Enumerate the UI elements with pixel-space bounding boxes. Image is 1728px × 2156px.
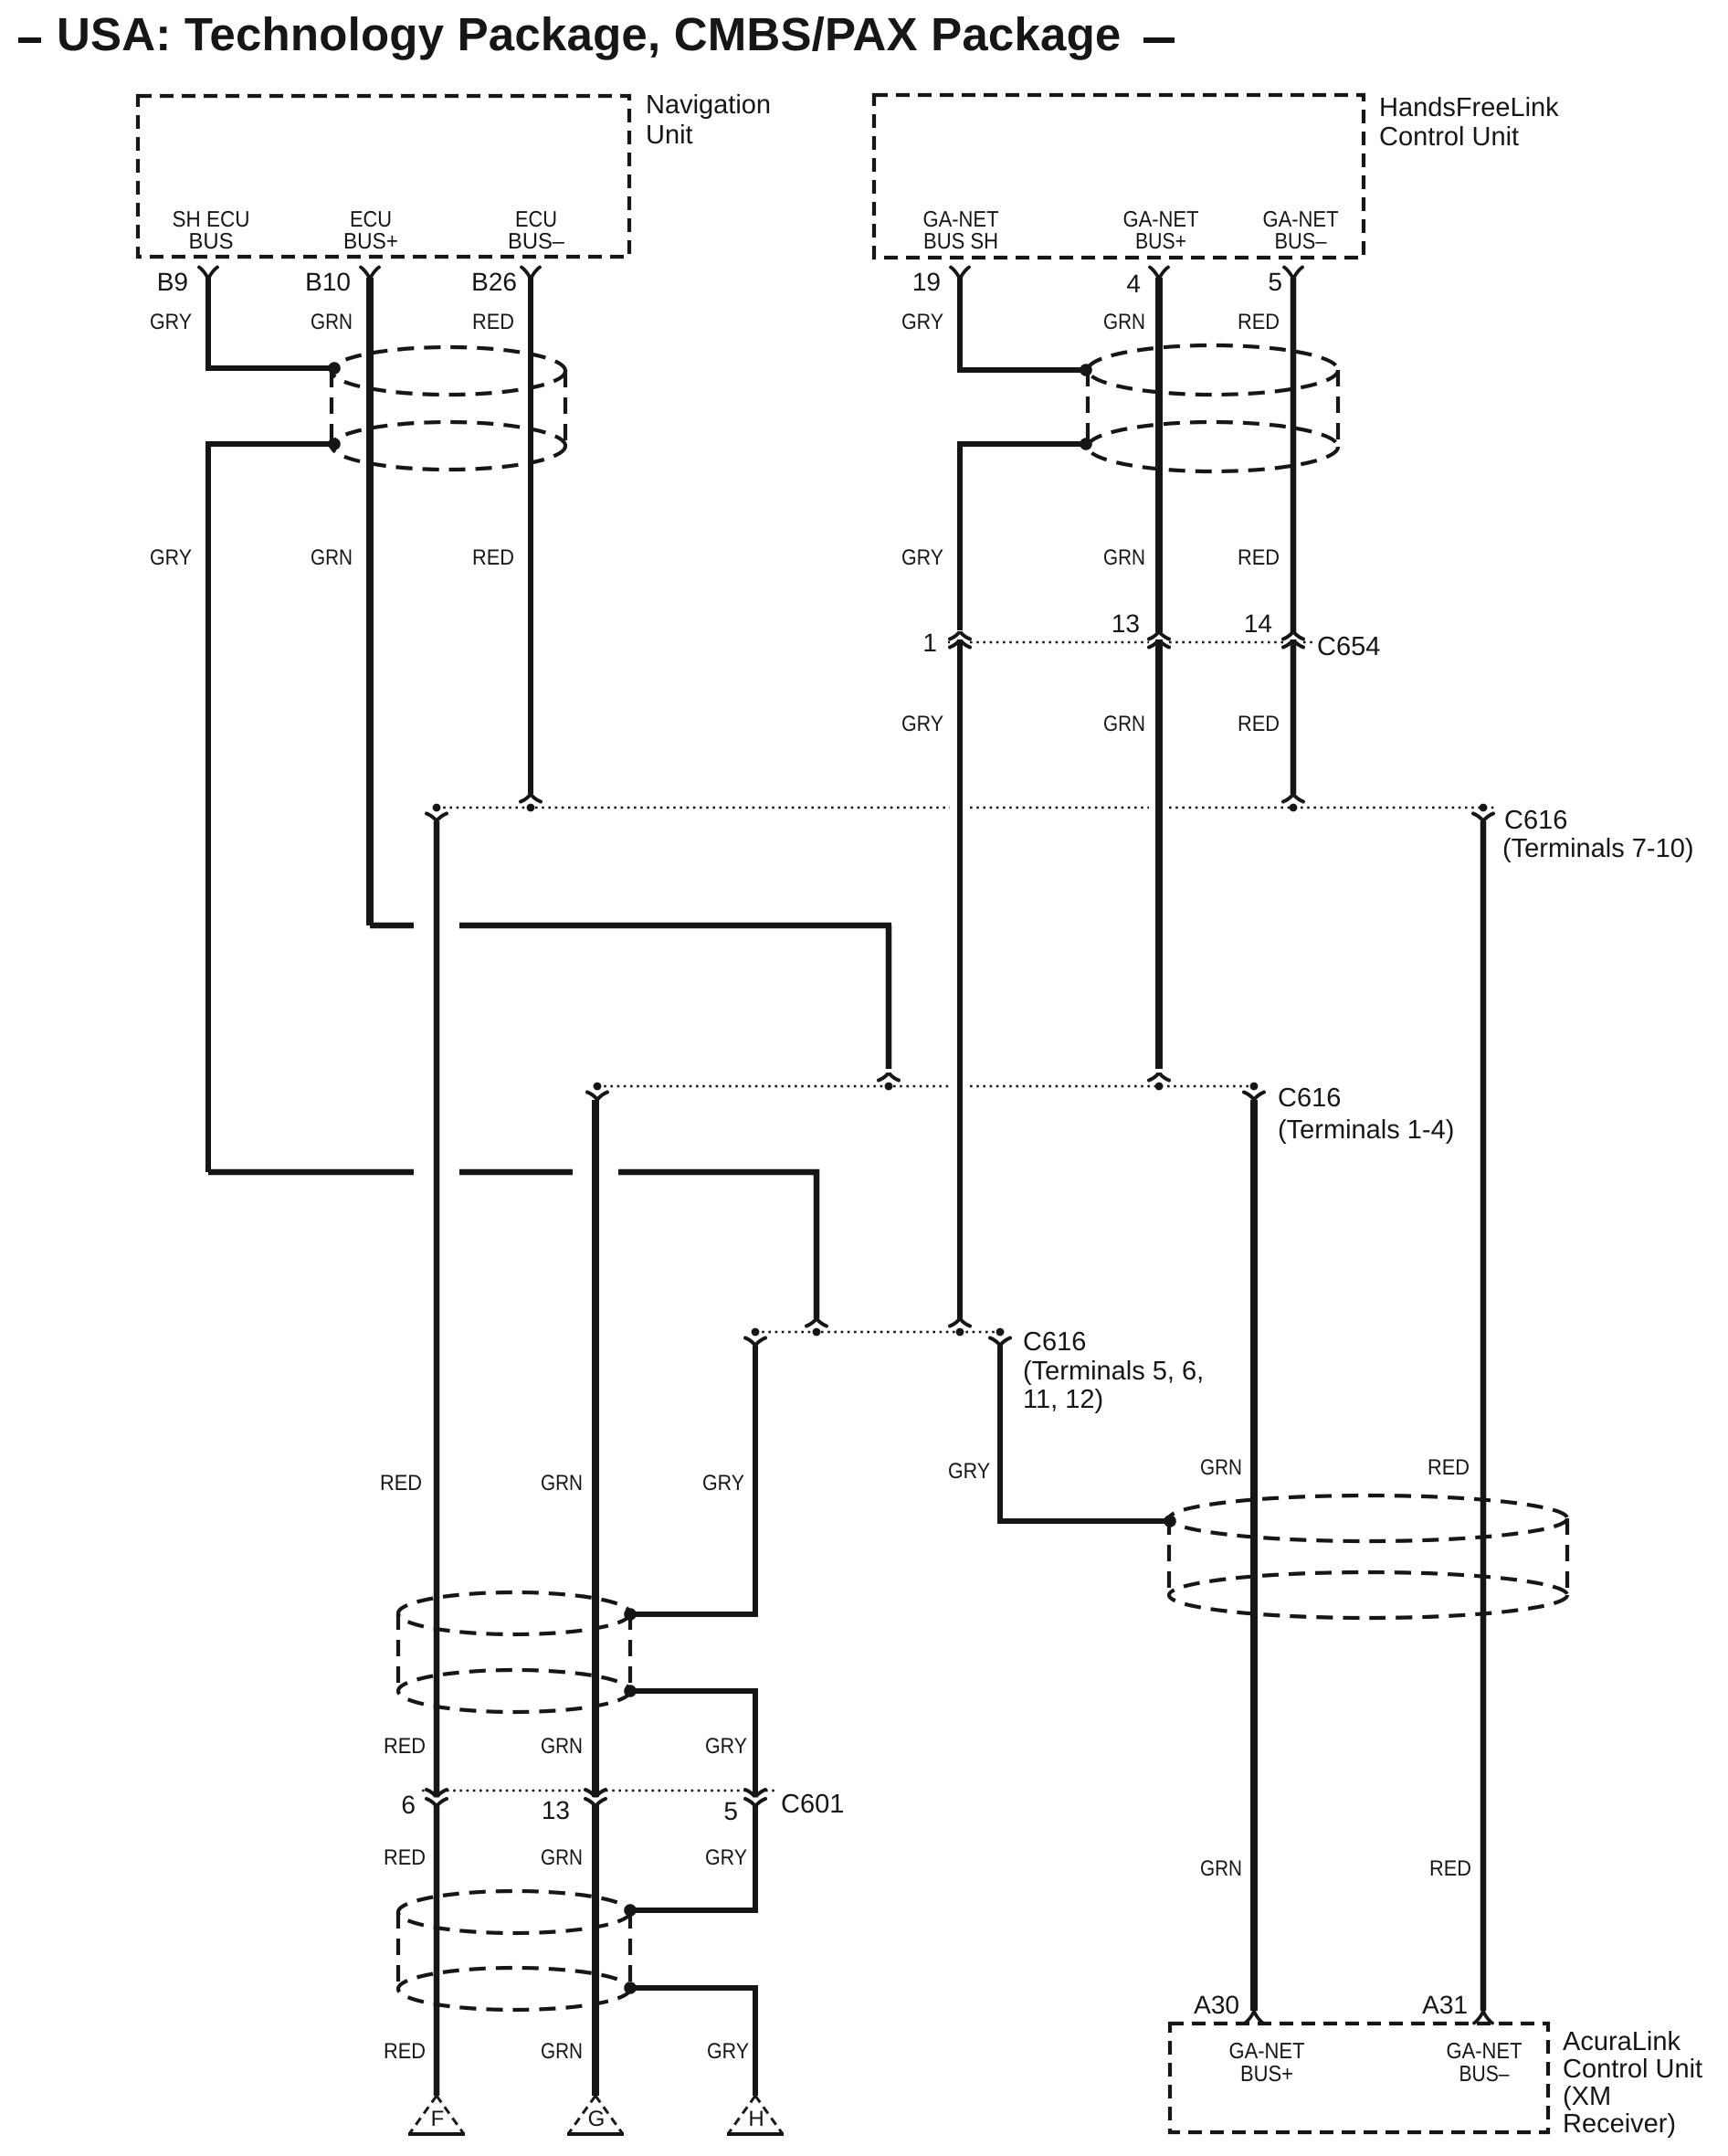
svg-text:RED: RED xyxy=(384,1734,426,1759)
svg-text:RED: RED xyxy=(472,310,514,334)
svg-text:RED: RED xyxy=(384,1845,426,1870)
wire GRY nav drop to C616 xyxy=(814,1169,820,1318)
wire GRY nav shield to run xyxy=(208,444,332,1172)
svg-text:GRN: GRN xyxy=(541,1471,583,1495)
svg-text:ECU: ECU xyxy=(515,207,557,232)
svg-text:BUS SH: BUS SH xyxy=(923,229,998,254)
svg-text:BUS+: BUS+ xyxy=(1135,229,1186,254)
wire RED C616 to A31 xyxy=(1480,821,1487,2011)
terminal GRN-G at C616-1-4 xyxy=(587,1093,607,1101)
svg-text:GRN: GRN xyxy=(311,545,353,570)
svg-text:GRN: GRN xyxy=(541,1845,583,1870)
navigation unit box xyxy=(138,96,629,257)
svg-text:C654: C654 xyxy=(1317,632,1380,661)
wire GRY HFL below C654 xyxy=(957,639,963,1319)
svg-text:C616: C616 xyxy=(1504,806,1567,835)
svg-text:SH ECU: SH ECU xyxy=(173,207,250,232)
wire RED C601 to F xyxy=(434,1804,440,2096)
svg-text:GRY: GRY xyxy=(901,310,943,334)
junction GRY nav at C616-5-6-11-12 xyxy=(813,1328,821,1337)
title dash right xyxy=(1143,37,1175,43)
pin A30 connector xyxy=(1245,2011,1263,2024)
svg-text:GRY: GRY xyxy=(150,545,192,570)
svg-text:BUS–: BUS– xyxy=(508,229,564,254)
svg-text:GRY: GRY xyxy=(901,712,943,736)
wire GRN C601 to G xyxy=(592,1804,599,2096)
svg-text:RED: RED xyxy=(1238,545,1280,570)
svg-text:BUS+: BUS+ xyxy=(1240,2062,1293,2087)
svg-text:RED: RED xyxy=(384,2039,426,2064)
svg-text:RED: RED xyxy=(380,1471,422,1495)
pin 5 connector xyxy=(1284,268,1302,280)
wire GRN pin4 down xyxy=(1155,278,1163,632)
connector C601 pin5 upper chevron xyxy=(745,1790,765,1798)
svg-text:GA-NET: GA-NET xyxy=(1229,2039,1305,2064)
connector H xyxy=(728,2096,783,2134)
svg-text:A31: A31 xyxy=(1422,1991,1468,2019)
pin 4 connector xyxy=(1150,268,1168,280)
svg-text:GRY: GRY xyxy=(705,1734,747,1759)
svg-text:GA-NET: GA-NET xyxy=(1263,207,1339,232)
junction GRN nav at C616-1-4 xyxy=(885,1083,893,1091)
terminal GRY-H at C616-5-6-11-12 xyxy=(745,1338,765,1347)
junction RED-A31 at C616-7-10 xyxy=(1480,804,1488,812)
wire RED pin5 down xyxy=(1291,278,1297,632)
wire GRN nav drop to C616 xyxy=(886,925,892,1069)
junction BL shield2 top xyxy=(624,1904,637,1917)
junction nav shield bottom xyxy=(328,438,341,450)
wire GRY nav horizontal run xyxy=(208,1169,414,1176)
svg-text:B10: B10 xyxy=(305,268,351,296)
svg-text:BUS+: BUS+ xyxy=(343,229,398,254)
svg-text:GA-NET: GA-NET xyxy=(1447,2039,1523,2064)
svg-text:ECU: ECU xyxy=(350,207,392,232)
junction BL shield1 top xyxy=(624,1608,637,1621)
svg-text:H: H xyxy=(748,2107,764,2131)
svg-text:GRY: GRY xyxy=(702,1471,744,1495)
terminal RED-A31 at C616-7-10 xyxy=(1473,814,1493,822)
svg-text:GRN: GRN xyxy=(541,2039,583,2064)
connector C601 pin13 lower chevron xyxy=(585,1799,606,1807)
svg-text:Unit: Unit xyxy=(646,121,693,150)
svg-text:Navigation: Navigation xyxy=(646,90,771,120)
svg-text:GRN: GRN xyxy=(1200,1856,1242,1881)
terminal RED HFL at C616-7-10 xyxy=(1283,794,1303,802)
connector C654 pin13 upper chevron xyxy=(1149,631,1169,639)
terminal GRN nav at C616-1-4 xyxy=(879,1073,899,1081)
svg-text:G: G xyxy=(588,2107,606,2131)
svg-text:BUS–: BUS– xyxy=(1275,229,1327,254)
svg-text:14: 14 xyxy=(1244,609,1272,638)
wire GRY B9 to nav shield xyxy=(208,278,332,368)
svg-text:5: 5 xyxy=(723,1797,738,1825)
shield twisted-pair bottom-right xyxy=(1169,1495,1567,1618)
connector G xyxy=(568,2096,623,2134)
svg-text:Control Unit: Control Unit xyxy=(1563,2055,1702,2084)
terminal GRY HFL at C616-5-6-11-12 xyxy=(950,1318,970,1326)
junction HFL shield top xyxy=(1080,364,1092,376)
svg-text:BUS–: BUS– xyxy=(1459,2062,1510,2087)
svg-text:RED: RED xyxy=(472,545,514,570)
wire RED C616 to F xyxy=(434,821,440,1797)
wire GRY C616 down to BL shield1 xyxy=(633,1346,755,1614)
terminal RED nav at C616-7-10 xyxy=(521,794,541,802)
svg-text:6: 6 xyxy=(401,1791,416,1819)
connector C654 pin1 upper chevron xyxy=(950,631,970,639)
svg-text:C601: C601 xyxy=(781,1790,844,1819)
svg-text:(Terminals 7-10): (Terminals 7-10) xyxy=(1502,834,1694,863)
wire RED B26 down xyxy=(528,278,533,794)
junction RED-F at C616-7-10 xyxy=(433,804,441,812)
pin B9 connector xyxy=(199,268,217,280)
terminal GRY nav at C616-5-6-11-12 xyxy=(806,1318,827,1326)
junction GRY-H at C616-5-6-11-12 xyxy=(752,1328,760,1337)
svg-text:13: 13 xyxy=(1112,609,1140,638)
svg-text:GRY: GRY xyxy=(707,2039,749,2064)
junction RED HFL at C616-7-10 xyxy=(1290,804,1298,812)
connector C654 pin14 upper chevron xyxy=(1283,631,1303,639)
svg-text:RED: RED xyxy=(1429,1856,1471,1881)
connector C654 pin14 lower chevron xyxy=(1283,639,1303,648)
svg-text:GRY: GRY xyxy=(150,310,192,334)
wire GRY pin19 to HFL shield xyxy=(960,278,1084,370)
wire GRY BL shield1 to C601 xyxy=(633,1691,755,1794)
svg-text:5: 5 xyxy=(1268,268,1282,296)
terminal RED-F at C616-7-10 xyxy=(427,814,447,822)
junction BL shield1 bottom xyxy=(624,1685,637,1697)
junction BR shield top xyxy=(1164,1515,1176,1527)
terminal GRY-BRshield at C616-5-6-11-12 xyxy=(990,1338,1010,1347)
terminal GRN HFL at C616-1-4 xyxy=(1149,1073,1169,1081)
junction BL shield2 bottom xyxy=(624,1982,637,1994)
wire GRY C616 to BR shield xyxy=(1000,1346,1166,1521)
svg-text:GRN: GRN xyxy=(311,310,353,334)
wire GRN C616 to G xyxy=(592,1100,599,1797)
svg-text:C616: C616 xyxy=(1023,1327,1086,1357)
svg-text:B26: B26 xyxy=(471,268,517,296)
wire GRN C616 to A30 xyxy=(1250,1100,1258,2011)
junction HFL shield bottom xyxy=(1080,438,1092,450)
svg-text:GA-NET: GA-NET xyxy=(1123,207,1199,232)
svg-text:(XM: (XM xyxy=(1563,2082,1611,2111)
svg-text:RED: RED xyxy=(1428,1455,1470,1480)
wire GRN nav horizontal run xyxy=(370,923,414,929)
svg-text:19: 19 xyxy=(912,268,941,296)
wire GRN pin4 below C654 xyxy=(1155,639,1163,1069)
terminal GRN-A30 at C616-1-4 xyxy=(1244,1093,1264,1101)
connector C654 line xyxy=(948,641,950,643)
svg-text:GRY: GRY xyxy=(901,545,943,570)
svg-text:GRN: GRN xyxy=(541,1734,583,1759)
pin B26 connector xyxy=(522,268,540,280)
connector C654 pin13 lower chevron xyxy=(1149,639,1169,648)
svg-text:4: 4 xyxy=(1126,269,1141,298)
svg-text:GA-NET: GA-NET xyxy=(923,207,999,232)
svg-text:AcuraLink: AcuraLink xyxy=(1563,2027,1681,2056)
connector C601 pin13 upper chevron xyxy=(585,1790,606,1798)
connector C601 pin5 lower chevron xyxy=(745,1799,765,1807)
pin A31 connector xyxy=(1474,2011,1492,2024)
svg-text:USA: Technology Package, CMBS/: USA: Technology Package, CMBS/PAX Packag… xyxy=(57,8,1122,60)
svg-text:GRY: GRY xyxy=(705,1845,747,1870)
junction GRN-A30 at C616-1-4 xyxy=(1250,1083,1259,1091)
svg-text:HandsFreeLink: HandsFreeLink xyxy=(1379,93,1559,122)
pin 19 connector xyxy=(951,268,969,280)
junction RED nav at C616-7-10 xyxy=(527,804,535,812)
svg-text:RED: RED xyxy=(1238,310,1280,334)
svg-text:GRN: GRN xyxy=(1200,1455,1242,1480)
svg-text:C616: C616 xyxy=(1278,1083,1341,1113)
svg-text:A30: A30 xyxy=(1194,1991,1239,2019)
svg-text:GRN: GRN xyxy=(1103,310,1145,334)
junction GRY HFL at C616-5-6-11-12 xyxy=(956,1328,964,1337)
svg-text:(Terminals 5, 6,: (Terminals 5, 6, xyxy=(1023,1357,1204,1386)
shield twisted-pair nav xyxy=(332,347,565,470)
shield twisted-pair bottom-left upper xyxy=(398,1592,630,1712)
wire GRN B10 down xyxy=(366,278,374,925)
connector F xyxy=(409,2096,464,2134)
connector C616 terminals 7-10 line xyxy=(437,807,950,808)
svg-text:GRN: GRN xyxy=(1103,545,1145,570)
svg-text:GRY: GRY xyxy=(948,1459,990,1484)
svg-text:Receiver): Receiver) xyxy=(1563,2109,1676,2139)
connector C601 line xyxy=(422,1790,427,1791)
svg-text:BUS: BUS xyxy=(189,229,234,254)
wire RED pin5 below C654 xyxy=(1291,639,1297,794)
wire GRY BL shield2 to H xyxy=(633,1988,755,2096)
shield twisted-pair HFL xyxy=(1088,345,1338,471)
svg-text:13: 13 xyxy=(542,1796,570,1824)
svg-text:B9: B9 xyxy=(157,268,188,296)
junction GRN HFL at C616-1-4 xyxy=(1155,1083,1164,1091)
svg-text:RED: RED xyxy=(1238,712,1280,736)
junction nav shield top xyxy=(328,362,341,375)
wire GRY C601 to BL shield2 xyxy=(633,1804,755,1910)
connector C601 pin6 lower chevron xyxy=(427,1799,447,1807)
svg-text:GRN: GRN xyxy=(1103,712,1145,736)
svg-text:1: 1 xyxy=(922,629,937,657)
connector C616 terminals 1-4 line xyxy=(597,1085,950,1087)
acuralink control unit (XM receiver) box xyxy=(1170,2024,1548,2132)
handsfreelink control unit box xyxy=(874,95,1364,258)
connector C616 terminals 5-6-11-12 line xyxy=(755,1331,1001,1333)
shield twisted-pair bottom-left lower xyxy=(398,1891,630,2010)
junction GRY-BRshield at C616-5-6-11-12 xyxy=(996,1328,1005,1337)
junction GRN-G at C616-1-4 xyxy=(594,1083,602,1091)
connector C654 pin1 lower chevron xyxy=(950,639,970,648)
svg-text:F: F xyxy=(431,2107,445,2131)
svg-text:Control Unit: Control Unit xyxy=(1379,122,1519,152)
title dash left xyxy=(18,37,41,43)
wire GRY HFL shield down xyxy=(960,444,1084,630)
connector C601 pin6 upper chevron xyxy=(427,1790,447,1798)
svg-text:11, 12): 11, 12) xyxy=(1023,1385,1103,1414)
pin B10 connector xyxy=(361,268,379,280)
svg-text:(Terminals 1-4): (Terminals 1-4) xyxy=(1278,1115,1454,1145)
